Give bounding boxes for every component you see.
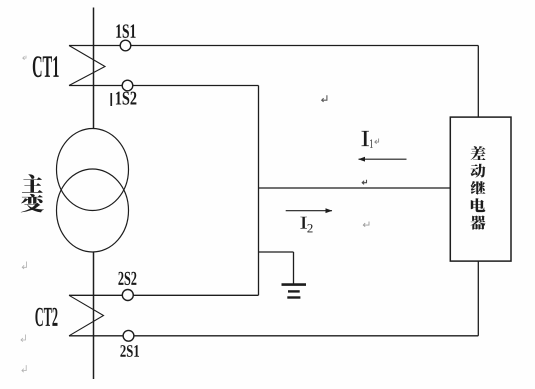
label I2 (current from CT2) — [300, 217, 307, 229]
wire: CT1 secondary 1S1 line to right corner — [69, 45, 478, 47]
return-mark artifact near I1 — [375, 139, 379, 144]
label 电 (relay text) — [471, 198, 486, 212]
wire: CT2 secondary 2S1 line to right corner — [69, 335, 478, 337]
label 主 (main transformer) — [22, 174, 43, 192]
CT2 winding chevron — [69, 295, 104, 336]
CT1 winding chevron — [69, 46, 105, 86]
subscript 2 of I2 — [307, 224, 312, 232]
terminal 1S1 circle — [120, 40, 131, 51]
label 1S2 — [116, 92, 137, 105]
relay box U1 差动继电器 — [450, 117, 511, 261]
label 继 (relay text) — [471, 181, 486, 195]
terminal 1S2 circle — [122, 80, 133, 91]
label 差 (relay text) — [471, 146, 486, 160]
label 器 (relay text) — [471, 215, 486, 229]
wire: right vertical into relay top — [477, 46, 479, 118]
return-mark artifact near wire — [322, 95, 327, 102]
label CT1 — [33, 56, 59, 77]
wire: left loop vertical (1S2 to 2S2) — [258, 86, 260, 296]
return-mark artifact above middle wire — [362, 180, 366, 185]
arrow for I2 pointing right — [286, 208, 333, 213]
label 动 (relay text) — [471, 164, 486, 178]
label CT2 — [35, 308, 57, 327]
return-mark artifact left margin 2 — [22, 262, 26, 269]
wire: right vertical from relay bottom — [477, 261, 479, 336]
label 1S1 — [116, 24, 135, 37]
return-mark artifact left margin 3 — [21, 335, 26, 342]
transformer T1 lower winding circle — [57, 169, 129, 252]
terminal 2S1 circle — [123, 330, 134, 341]
ground symbol — [282, 285, 307, 298]
label I1 (current into relay) — [361, 131, 369, 146]
transformer T1 (main transformer) upper winding circle — [57, 129, 129, 211]
wire: ground branch horizontal — [259, 251, 294, 253]
label 变 (main transformer) — [21, 194, 44, 212]
wire: ground branch vertical — [293, 252, 295, 284]
subscript 1 of I1 — [370, 139, 373, 147]
wire: CT2 secondary 2S2 line — [69, 294, 259, 296]
return-mark artifact left margin 4 — [22, 365, 26, 372]
small bar before 1S2 — [110, 93, 112, 106]
label 2S1 — [120, 345, 139, 357]
return-mark artifact left margin 1 — [23, 56, 26, 60]
wire: middle wire to relay left — [259, 187, 451, 189]
terminal 2S2 circle — [122, 290, 133, 301]
wire: main primary vertical (top section) — [93, 8, 95, 130]
wire: main primary vertical (bottom section) — [93, 252, 95, 379]
arrow for I1 pointing left — [358, 157, 406, 162]
return-mark artifact near I2 — [363, 222, 369, 227]
label 2S2 — [118, 272, 136, 285]
wire: CT1 secondary 1S2 line — [69, 85, 259, 87]
